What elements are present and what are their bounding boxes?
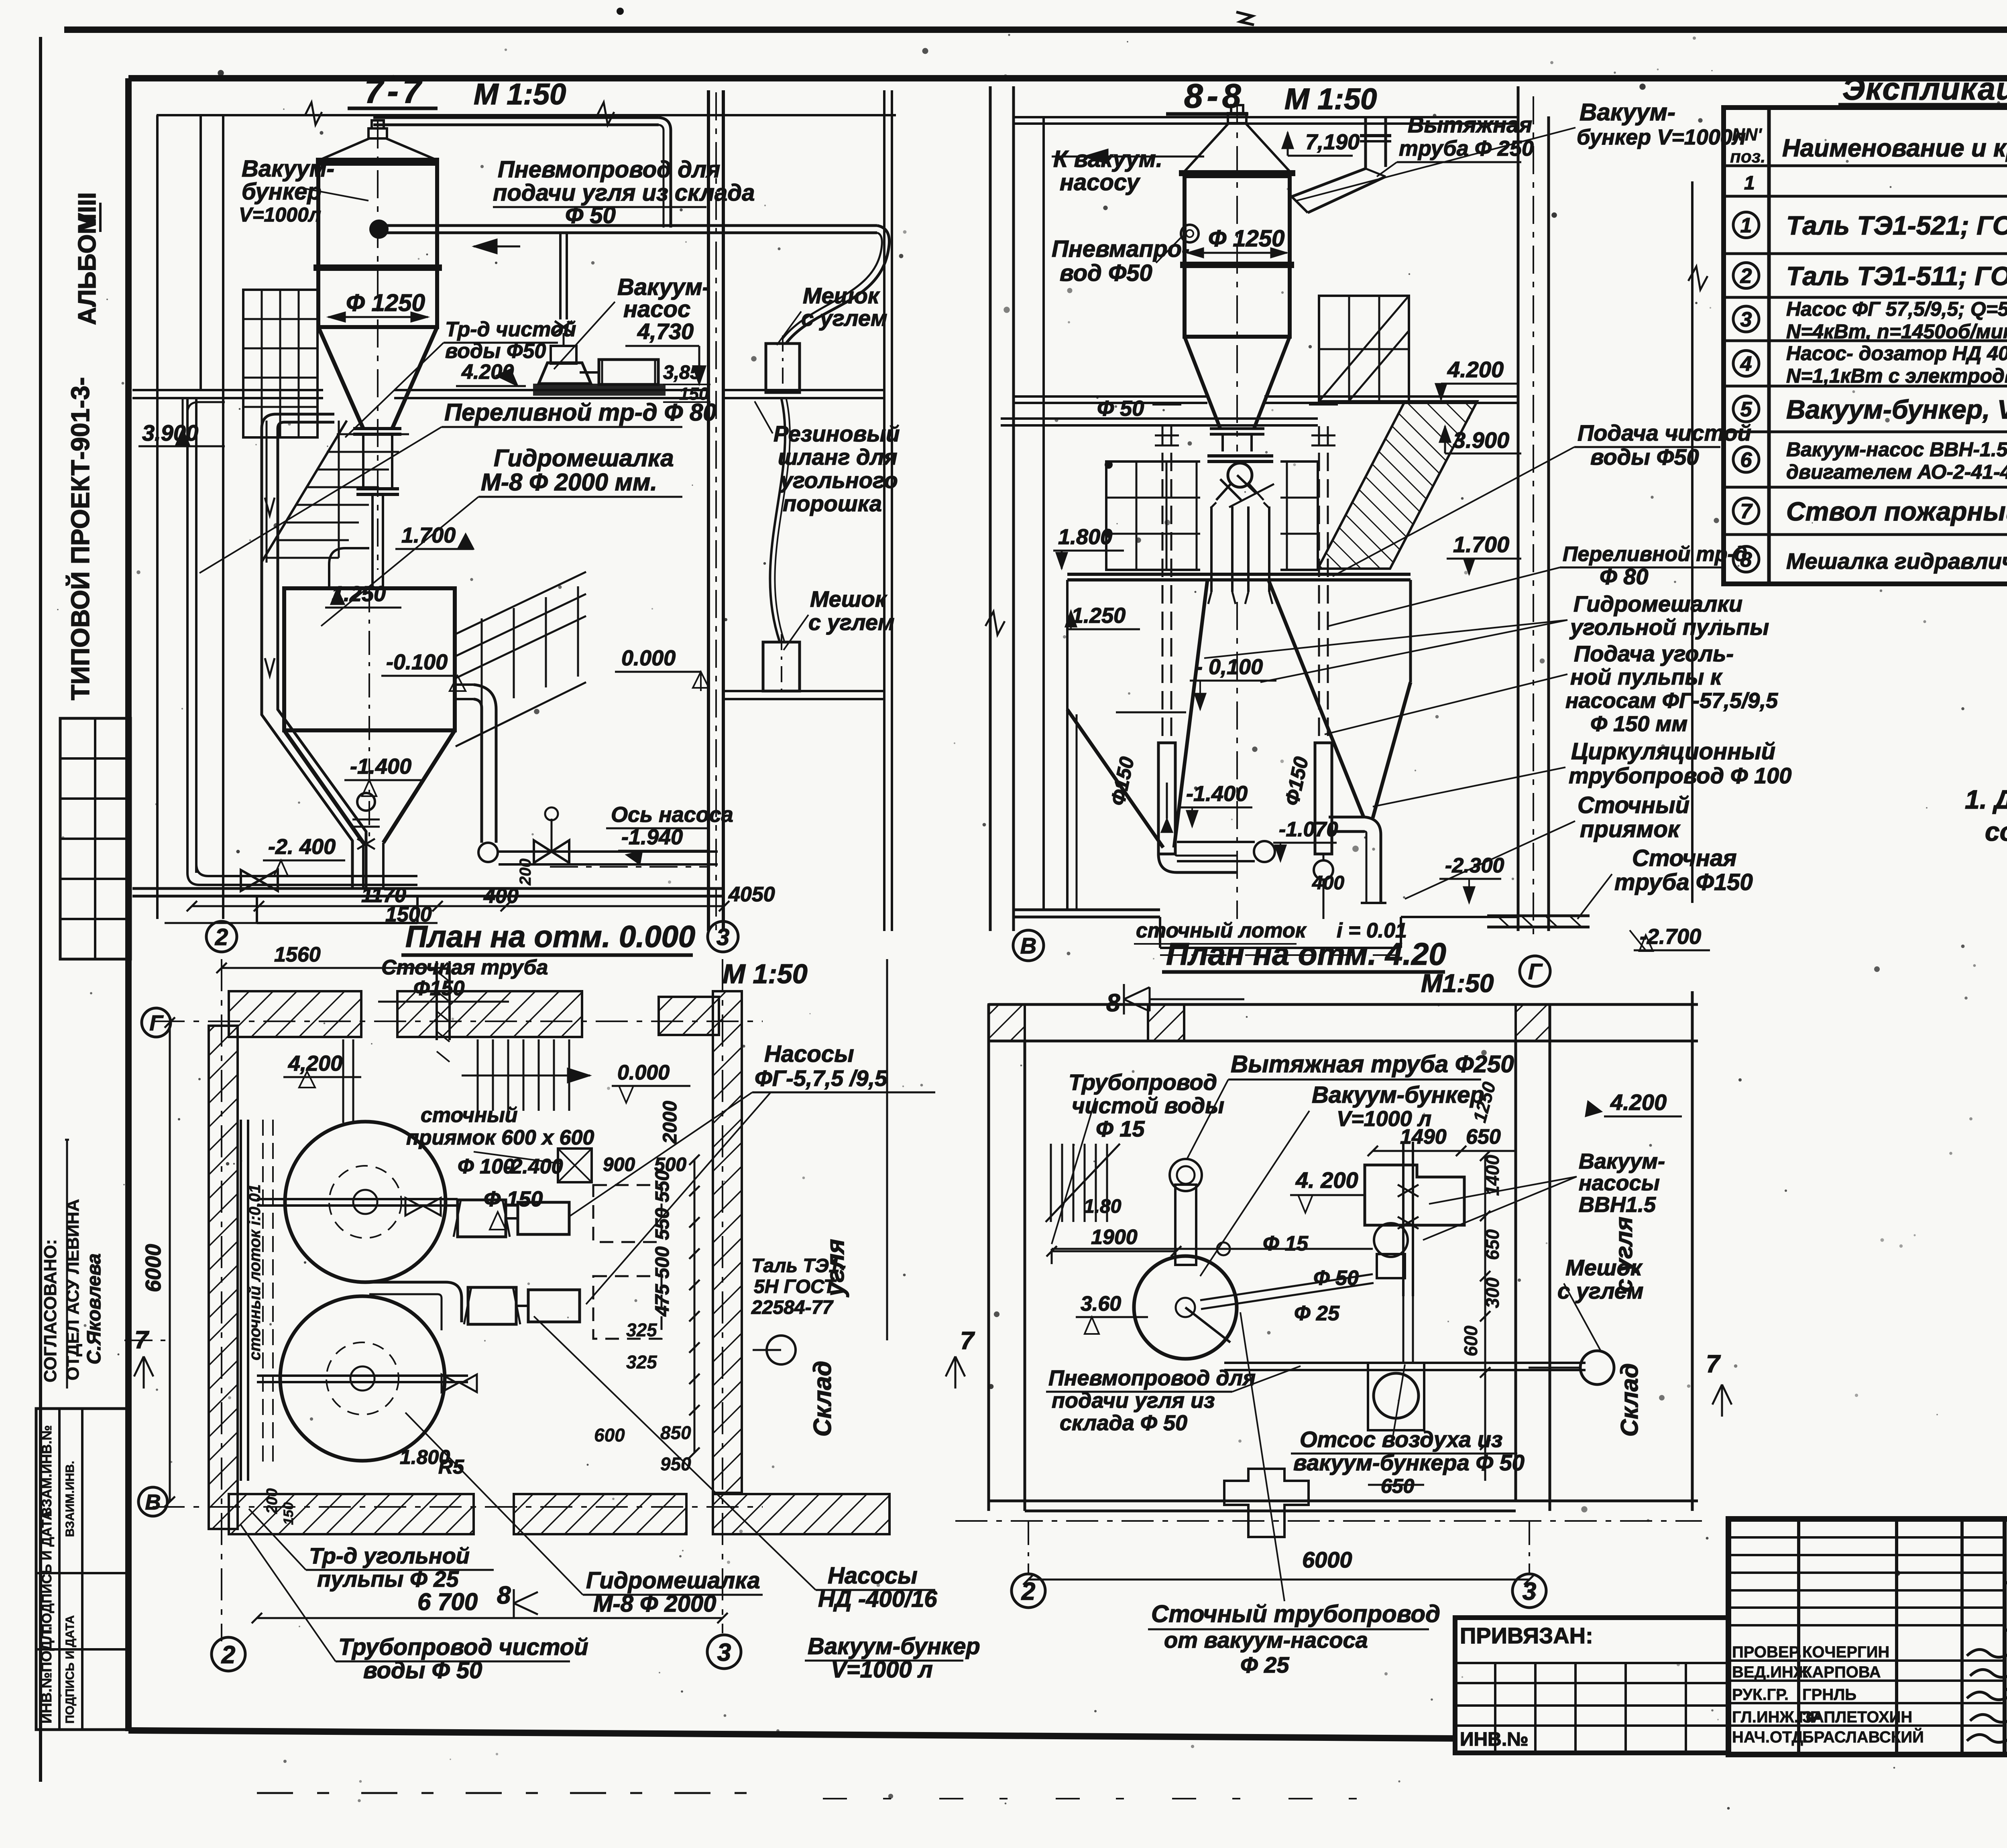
svg-text:Склад: Склад bbox=[1616, 1363, 1643, 1437]
svg-text:ПОДПИСЬ И ДАТА: ПОДПИСЬ И ДАТА bbox=[39, 1511, 55, 1633]
svg-text:План на отм. 4.20: План на отм. 4.20 bbox=[1166, 936, 1446, 972]
svg-text:АЛЬБОМ: АЛЬБОМ bbox=[73, 213, 101, 325]
svg-text:Сточная: Сточная bbox=[1632, 845, 1737, 871]
svg-text:1.700: 1.700 bbox=[401, 523, 456, 547]
svg-text:4. 200: 4. 200 bbox=[1295, 1167, 1358, 1193]
svg-text:НАЧ.ОТД.: НАЧ.ОТД. bbox=[1732, 1728, 1808, 1746]
svg-text:400: 400 bbox=[483, 884, 519, 908]
svg-text:475: 475 bbox=[652, 1284, 673, 1317]
svg-text:600: 600 bbox=[594, 1425, 625, 1445]
svg-text:Вакуум-бункер: Вакуум-бункер bbox=[808, 1633, 980, 1659]
svg-text:КОЧЕРГИН: КОЧЕРГИН bbox=[1802, 1643, 1889, 1661]
svg-text:Таль ТЭ1-511; ГОСТ 22584-77: Таль ТЭ1-511; ГОСТ 22584-77 bbox=[1786, 261, 2007, 291]
svg-text:2000: 2000 bbox=[660, 1101, 681, 1144]
svg-text:1560: 1560 bbox=[274, 943, 321, 966]
svg-text:2: 2 bbox=[1021, 1578, 1035, 1605]
svg-text:3.900: 3.900 bbox=[1453, 427, 1509, 453]
svg-text:угольного: угольного bbox=[779, 468, 898, 493]
svg-text:Насос ФГ 57,5/9,5; Q=57,5 м³: Насос ФГ 57,5/9,5; Q=57,5 м³/час; Н=9,5м bbox=[1786, 298, 2007, 320]
svg-text:6: 6 bbox=[1740, 449, 1753, 472]
svg-text:1.250: 1.250 bbox=[1071, 604, 1126, 628]
svg-text:ной пульпы к: ной пульпы к bbox=[1570, 664, 1723, 689]
svg-text:ТИПОВОЙ ПРОЕКТ-901-3-: ТИПОВОЙ ПРОЕКТ-901-3- bbox=[65, 377, 95, 700]
svg-text:Таль ТЭ1-521; ГОСТ 22584-77: Таль ТЭ1-521; ГОСТ 22584-77 bbox=[1786, 211, 2007, 240]
svg-text:ГРНЛЬ: ГРНЛЬ bbox=[1802, 1686, 1856, 1704]
svg-text:с углем: с углем bbox=[808, 610, 894, 635]
svg-text:Резиновый: Резиновый bbox=[773, 421, 900, 446]
svg-text:3: 3 bbox=[716, 924, 729, 950]
svg-text:Ф 25: Ф 25 bbox=[1240, 1652, 1289, 1677]
svg-text:насосу: насосу bbox=[1060, 169, 1140, 195]
svg-text:V=1000 л: V=1000 л bbox=[1337, 1107, 1431, 1131]
svg-text:шланг для: шланг для bbox=[778, 444, 897, 470]
svg-text:Тр-д чистой: Тр-д чистой bbox=[445, 318, 576, 341]
svg-text:400: 400 bbox=[1312, 872, 1344, 894]
svg-text:4: 4 bbox=[1740, 352, 1752, 376]
svg-text:Мешок: Мешок bbox=[810, 586, 887, 612]
svg-text:Вакуум-насос ВВН-1.5 Q=90 м³/: Вакуум-насос ВВН-1.5 Q=90 м³/час, с элек… bbox=[1786, 438, 2007, 461]
svg-text:4.200: 4.200 bbox=[1447, 357, 1504, 382]
svg-text:1.700: 1.700 bbox=[1453, 532, 1509, 557]
svg-text:Насосы: Насосы bbox=[764, 1041, 854, 1067]
svg-text:Наименование и краткая характе: Наименование и краткая характеристика bbox=[1782, 134, 2007, 162]
svg-text:Ствол пожарный РС-50: Ствол пожарный РС-50 bbox=[1786, 496, 2007, 526]
svg-text:3: 3 bbox=[1523, 1578, 1536, 1605]
svg-text:Сточный трубопровод: Сточный трубопровод bbox=[1151, 1600, 1440, 1627]
svg-text:Ось насоса: Ось насоса bbox=[611, 803, 733, 827]
svg-text:В: В bbox=[1020, 933, 1036, 958]
svg-text:6 700: 6 700 bbox=[417, 1588, 478, 1615]
svg-text:Мешок: Мешок bbox=[803, 283, 880, 308]
svg-text:вод Ф50: вод Ф50 bbox=[1060, 260, 1152, 286]
svg-text:Циркуляционный: Циркуляционный bbox=[1571, 738, 1775, 764]
svg-text:М1:50: М1:50 bbox=[1421, 969, 1494, 998]
svg-text:приямок 600 х 600: приямок 600 х 600 bbox=[406, 1126, 594, 1149]
svg-text:8: 8 bbox=[497, 1582, 511, 1609]
svg-text:Вакуум-: Вакуум- bbox=[1579, 1149, 1665, 1173]
svg-text:Переливной тр-д: Переливной тр-д bbox=[1563, 543, 1747, 566]
svg-text:Переливной тр-д Ф 80: Переливной тр-д Ф 80 bbox=[444, 399, 716, 426]
svg-text:Пневмопровод для: Пневмопровод для bbox=[1048, 1366, 1256, 1390]
svg-text:Мешалка гидравлическая циркуля: Мешалка гидравлическая циркуляционная М-… bbox=[1786, 549, 2007, 574]
svg-text:1: 1 bbox=[1740, 214, 1752, 237]
svg-text:1900: 1900 bbox=[1091, 1226, 1138, 1249]
svg-text:приямок: приямок bbox=[1580, 816, 1681, 842]
svg-text:3: 3 bbox=[717, 1639, 731, 1666]
svg-text:Склад: Склад bbox=[809, 1361, 837, 1437]
svg-text:Ф 150: Ф 150 bbox=[484, 1187, 543, 1211]
svg-text:2: 2 bbox=[1740, 264, 1752, 288]
svg-text:1.80: 1.80 bbox=[1084, 1196, 1122, 1217]
svg-text:-2. 400: -2. 400 bbox=[268, 835, 336, 859]
svg-text:ВЗАИМ.ИНВ.: ВЗАИМ.ИНВ. bbox=[63, 1461, 77, 1537]
svg-text:ИНВ.№ПОДЛ.: ИНВ.№ПОДЛ. bbox=[38, 1626, 55, 1724]
svg-text:двигателем АО-2-41-4; N=4кВт;: двигателем АО-2-41-4; N=4кВт; n=1460 об/… bbox=[1786, 461, 2007, 483]
svg-text:5: 5 bbox=[1740, 398, 1753, 421]
svg-text:ЗАПЛЕТОХИН: ЗАПЛЕТОХИН bbox=[1802, 1708, 1912, 1726]
svg-text:Ф 15: Ф 15 bbox=[1263, 1232, 1309, 1255]
svg-text:200: 200 bbox=[264, 1488, 281, 1514]
svg-text:труба Ф150: труба Ф150 bbox=[1614, 869, 1753, 895]
svg-text:склада Ф 50: склада Ф 50 bbox=[1060, 1411, 1187, 1435]
svg-text:1.800: 1.800 bbox=[1058, 525, 1112, 549]
svg-text:ФГ-5,7,5 /9,5: ФГ-5,7,5 /9,5 bbox=[755, 1065, 887, 1091]
svg-text:Подача уголь-: Подача уголь- bbox=[1574, 641, 1734, 666]
svg-text:К вакуум.: К вакуум. bbox=[1053, 146, 1162, 172]
svg-text:Трубопровод: Трубопровод bbox=[1069, 1069, 1217, 1095]
svg-text:Вакуум-: Вакуум- bbox=[1580, 99, 1675, 126]
svg-text:650: 650 bbox=[1381, 1475, 1415, 1497]
svg-text:Вакуум-бункер: Вакуум-бункер bbox=[1312, 1082, 1484, 1108]
svg-text:8-8: 8-8 bbox=[1184, 77, 1245, 115]
svg-text:ПОДПИСЬ И ДАТА: ПОДПИСЬ И ДАТА bbox=[63, 1615, 77, 1724]
svg-text:М-8 Ф 2000 мм.: М-8 Ф 2000 мм. bbox=[481, 469, 657, 496]
svg-text:бункер: бункер bbox=[242, 179, 322, 205]
svg-text:Вакуум-бункер, V=1000 л с пит: Вакуум-бункер, V=1000 л с питателем bbox=[1786, 394, 2007, 424]
svg-text:насосы: насосы bbox=[1579, 1171, 1660, 1195]
svg-text:ОТДЕЛ АСУ ЛЕВИНА: ОТДЕЛ АСУ ЛЕВИНА bbox=[63, 1199, 83, 1380]
svg-text:1400: 1400 bbox=[1482, 1155, 1503, 1196]
svg-text:N=1,1кВт с электродвигателем: N=1,1кВт с электродвигателем АО2-21-4 bbox=[1786, 365, 2007, 387]
svg-text:от вакуум-насоса: от вакуум-насоса bbox=[1164, 1627, 1368, 1653]
svg-text:200: 200 bbox=[517, 858, 534, 886]
svg-text:Гидромешалка: Гидромешалка bbox=[494, 445, 674, 472]
svg-text:N=4кВт, n=1450об/мин с электро: N=4кВт, n=1450об/мин с электродвигателем… bbox=[1786, 320, 2007, 343]
svg-text:Ф 1250: Ф 1250 bbox=[346, 289, 425, 316]
svg-text:М 1:50: М 1:50 bbox=[723, 959, 808, 989]
svg-text:Ф 1250: Ф 1250 bbox=[1208, 226, 1284, 252]
svg-text:VIII: VIII bbox=[73, 192, 101, 230]
svg-text:900: 900 bbox=[603, 1154, 635, 1175]
svg-text:Вытяжная: Вытяжная bbox=[1408, 112, 1532, 137]
svg-text:7: 7 bbox=[1706, 1350, 1721, 1378]
svg-text:650: 650 bbox=[1482, 1229, 1503, 1260]
svg-text:РУК.ГР.: РУК.ГР. bbox=[1732, 1686, 1789, 1704]
svg-text:3.60: 3.60 bbox=[1081, 1292, 1121, 1315]
svg-text:чистой воды: чистой воды bbox=[1072, 1093, 1224, 1118]
svg-text:Насос- дозатор НД 400/16; Q=4: Насос- дозатор НД 400/16; Q=400 л/час, Н… bbox=[1786, 342, 2007, 365]
svg-text:-0.100: -0.100 bbox=[386, 650, 448, 674]
svg-text:4,730: 4,730 bbox=[637, 319, 694, 344]
svg-text:Трубопровод чистой: Трубопровод чистой bbox=[338, 1634, 588, 1660]
svg-text:Подача чистой: Подача чистой bbox=[1578, 420, 1751, 445]
svg-text:Ф 15: Ф 15 bbox=[1096, 1116, 1145, 1141]
svg-text:бункер V=1000л: бункер V=1000л bbox=[1577, 125, 1746, 149]
svg-text:Вакуум-: Вакуум- bbox=[242, 156, 334, 182]
svg-text:Отсос воздуха из: Отсос воздуха из bbox=[1300, 1427, 1502, 1452]
svg-text:ПРИВЯЗАН:: ПРИВЯЗАН: bbox=[1460, 1623, 1593, 1648]
svg-text:850: 850 bbox=[660, 1422, 691, 1443]
svg-text:3: 3 bbox=[1740, 308, 1752, 331]
svg-text:0.000: 0.000 bbox=[621, 646, 676, 670]
svg-text:с углем: с углем bbox=[801, 305, 887, 331]
svg-text:Г: Г bbox=[1528, 959, 1543, 984]
svg-text:4.200: 4.200 bbox=[1610, 1090, 1667, 1115]
svg-text:поз.: поз. bbox=[1730, 147, 1765, 167]
svg-text:БРАСЛАВСКИЙ: БРАСЛАВСКИЙ bbox=[1802, 1728, 1924, 1746]
svg-text:3.900: 3.900 bbox=[142, 420, 198, 445]
svg-text:Ф 150 мм: Ф 150 мм bbox=[1590, 712, 1687, 736]
svg-text:2: 2 bbox=[221, 1641, 235, 1669]
svg-text:С.Яковлева: С.Яковлева bbox=[83, 1253, 105, 1364]
svg-text:сточный лоток i:0.01: сточный лоток i:0.01 bbox=[246, 1184, 264, 1360]
svg-text:ВВН1.5: ВВН1.5 bbox=[1579, 1193, 1656, 1217]
svg-text:Ф 25: Ф 25 bbox=[1294, 1302, 1340, 1325]
svg-text:-2.400: -2.400 bbox=[504, 1155, 563, 1178]
svg-text:ИНВ.№: ИНВ.№ bbox=[1460, 1729, 1529, 1750]
svg-text:7: 7 bbox=[1740, 500, 1753, 523]
svg-text:Гидромешалка: Гидромешалка bbox=[586, 1567, 760, 1594]
svg-text:подачи угля из склада: подачи угля из склада bbox=[493, 180, 755, 206]
svg-text:Насосы: Насосы bbox=[828, 1563, 918, 1589]
svg-text:Гидромешалки: Гидромешалки bbox=[1573, 591, 1742, 616]
svg-text:Ф 50: Ф 50 bbox=[1097, 396, 1144, 421]
svg-text:4050: 4050 bbox=[728, 883, 775, 906]
svg-text:300: 300 bbox=[1482, 1277, 1503, 1308]
svg-text:угольной пульпы: угольной пульпы bbox=[1569, 614, 1769, 640]
svg-text:План на отм. 0.000: План на отм. 0.000 bbox=[405, 920, 695, 954]
svg-text:-1.400: -1.400 bbox=[1186, 782, 1248, 806]
svg-text:550: 550 bbox=[652, 1170, 673, 1202]
svg-text:3,85: 3,85 bbox=[663, 362, 701, 383]
svg-text:7: 7 bbox=[960, 1327, 975, 1355]
svg-text:Экспликация: Экспликация bbox=[1842, 71, 2007, 106]
svg-text:0.000: 0.000 bbox=[617, 1061, 670, 1084]
svg-text:М 1:50: М 1:50 bbox=[474, 77, 566, 111]
svg-text:Тр-д угольной: Тр-д угольной bbox=[309, 1543, 470, 1568]
svg-text:6000: 6000 bbox=[1302, 1547, 1352, 1572]
svg-text:6000: 6000 bbox=[141, 1244, 165, 1292]
svg-text:КАРПОВА: КАРПОВА bbox=[1802, 1663, 1881, 1681]
svg-text:-1.400: -1.400 bbox=[350, 754, 411, 779]
svg-text:650: 650 bbox=[1466, 1125, 1501, 1149]
svg-text:500: 500 bbox=[652, 1246, 673, 1279]
svg-text:V=1000л: V=1000л bbox=[239, 203, 321, 226]
svg-text:150: 150 bbox=[281, 1502, 296, 1525]
svg-text:Пневмопровод для: Пневмопровод для bbox=[498, 157, 720, 183]
svg-text:22584-77: 22584-77 bbox=[751, 1297, 834, 1318]
svg-text:угля: угля bbox=[822, 1239, 849, 1297]
svg-text:325: 325 bbox=[626, 1352, 657, 1372]
svg-text:труба Ф 250: труба Ф 250 bbox=[1399, 136, 1534, 161]
svg-text:Вытяжная труба Ф250: Вытяжная труба Ф250 bbox=[1231, 1051, 1514, 1077]
svg-text:1: 1 bbox=[1744, 173, 1755, 194]
svg-text:ВЕД.ИНЖ: ВЕД.ИНЖ bbox=[1732, 1663, 1808, 1681]
svg-text:насосам ФГ-57,5/9,5: насосам ФГ-57,5/9,5 bbox=[1565, 689, 1778, 713]
svg-text:ВЗАМ.ИНВ.№: ВЗАМ.ИНВ.№ bbox=[39, 1425, 55, 1517]
svg-text:ПРОВЕР.: ПРОВЕР. bbox=[1732, 1643, 1801, 1661]
svg-text:Ф 50: Ф 50 bbox=[1313, 1267, 1359, 1290]
svg-text:-1.070: -1.070 bbox=[1279, 818, 1338, 841]
svg-text:7,190: 7,190 bbox=[1305, 130, 1360, 154]
svg-text:В: В bbox=[145, 1490, 161, 1514]
svg-text:сточный: сточный bbox=[421, 1104, 518, 1127]
svg-text:325: 325 bbox=[626, 1319, 657, 1340]
svg-text:совместно с л. N ВГ-9: совместно с л. N ВГ-9 bbox=[1985, 817, 2007, 846]
svg-text:1. Данный лист смотри: 1. Данный лист смотри bbox=[1965, 785, 2007, 814]
svg-text:-2.700: -2.700 bbox=[1640, 925, 1701, 949]
svg-text:трубопровод Ф 100: трубопровод Ф 100 bbox=[1569, 763, 1791, 788]
svg-text:Сточный: Сточный bbox=[1578, 792, 1689, 818]
svg-text:М 1:50: М 1:50 bbox=[1284, 82, 1377, 116]
svg-text:4,200: 4,200 bbox=[288, 1051, 342, 1075]
svg-text:Г: Г bbox=[149, 1011, 164, 1035]
svg-text:порошка: порошка bbox=[783, 491, 882, 516]
svg-text:600: 600 bbox=[1460, 1326, 1481, 1356]
svg-text:СОГЛАСОВАНО:: СОГЛАСОВАНО: bbox=[41, 1239, 60, 1382]
svg-text:2: 2 bbox=[215, 924, 228, 950]
svg-text:с угля: с угля bbox=[1610, 1217, 1637, 1292]
